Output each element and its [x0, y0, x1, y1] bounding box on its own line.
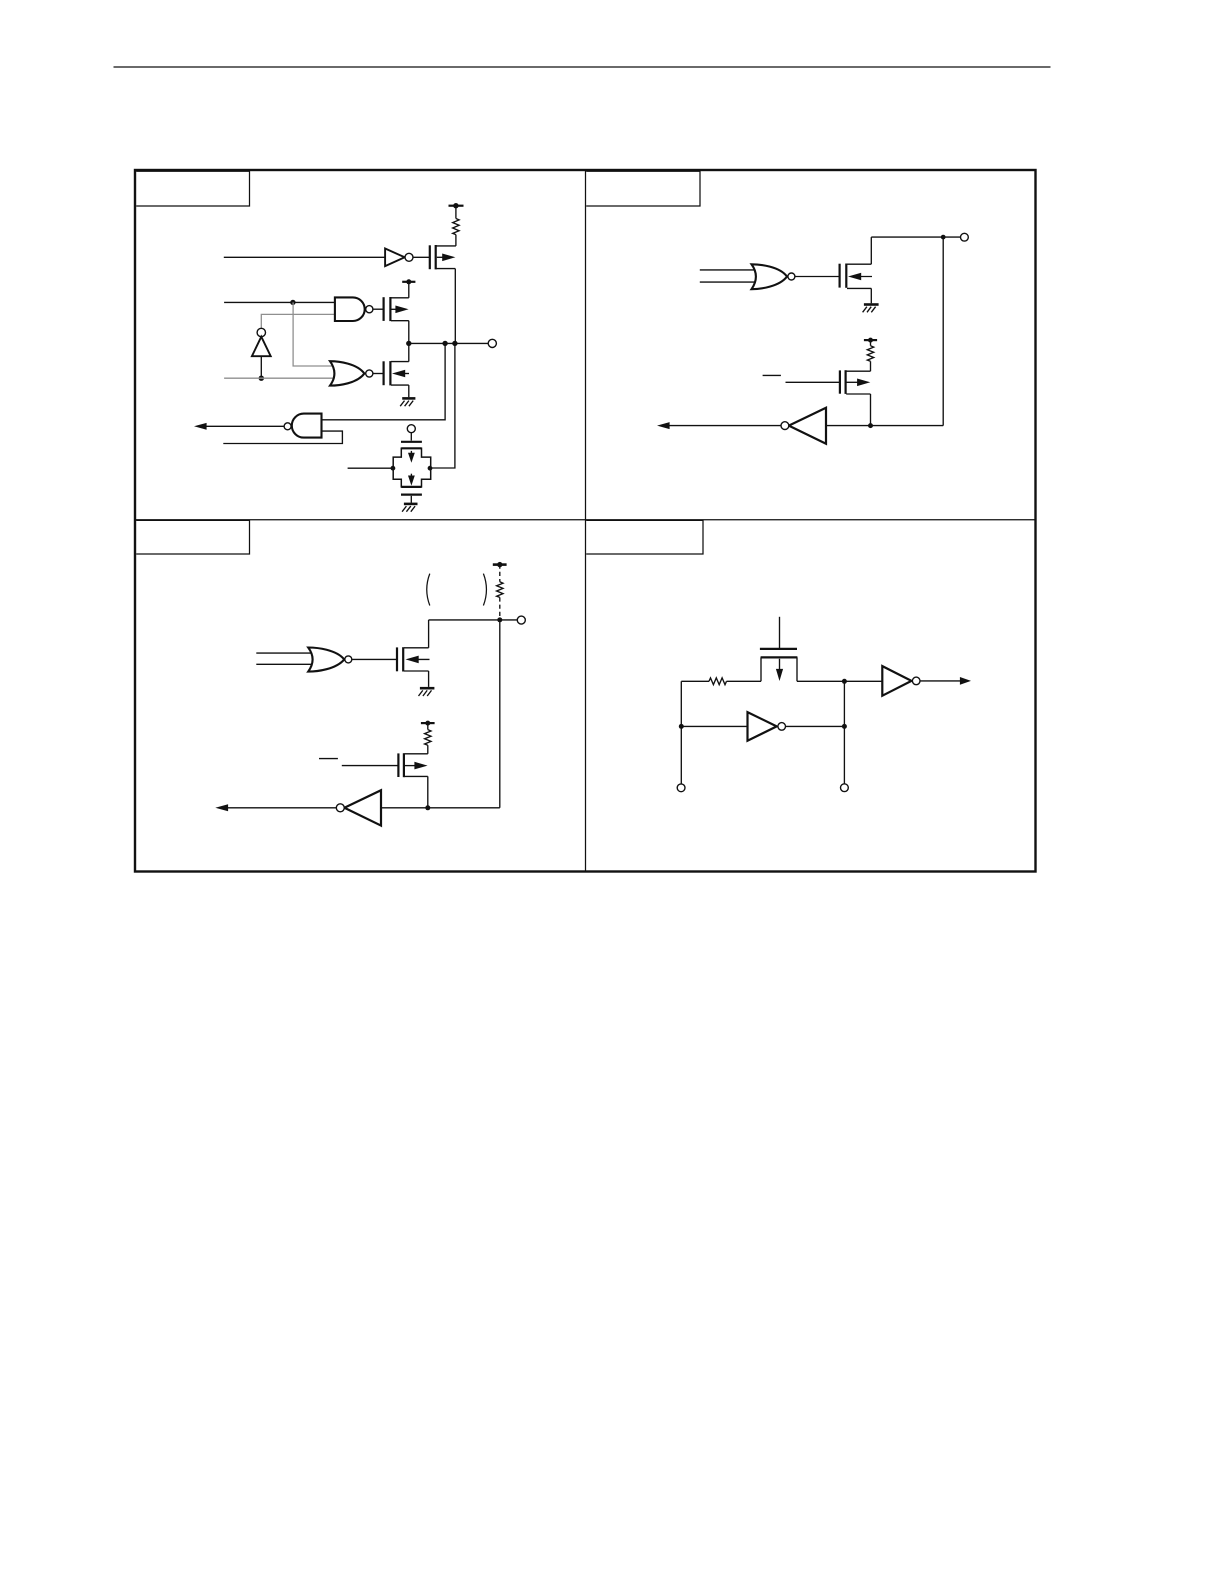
wire gate lead to Q9 [342, 765, 398, 767]
left parenthesis (mask option) [427, 574, 430, 606]
output pad circle [961, 233, 969, 241]
ground GND1 [402, 397, 415, 400]
resistor R4 [425, 730, 431, 746]
wire U2 to Q2 gate [373, 308, 383, 310]
transistor Q10 right leg [796, 657, 798, 681]
nor U6 [752, 264, 788, 289]
wire Q6 source down to ground [870, 288, 872, 303]
ground GND3 [864, 303, 879, 306]
outer table border [135, 170, 1036, 872]
dashed wire R3 to node [499, 597, 501, 620]
transistor Q10 channel bar [761, 656, 798, 658]
main wire resistor to Q10 left leg [727, 680, 762, 682]
wire node down to NAND U5 input [322, 343, 445, 419]
node wire to output pad [429, 619, 518, 621]
dash mark (signal overline) [319, 758, 338, 760]
wire input stub lower to NOR U8 [256, 663, 313, 665]
wire vertical node to bottom line [499, 620, 501, 808]
main wire Q10 right leg to inverter U11 [797, 680, 882, 682]
transistor Q3 drain lead [391, 384, 409, 386]
left terminal junction dot [391, 466, 396, 471]
transistor Q1 drain lead [437, 268, 456, 270]
horizontal divider [135, 519, 1036, 521]
inverter U11 [882, 666, 911, 696]
resistor R3 [497, 582, 503, 598]
cell label box top-left [136, 171, 249, 206]
wire Q1 drain down to output node [454, 269, 456, 344]
bubble of U5 [284, 423, 291, 430]
mid wire U10 to right vertical [786, 725, 845, 727]
wire right vertical [843, 681, 845, 784]
bubble of U2 [366, 306, 373, 313]
transistor Q10 gate bar [760, 648, 797, 650]
wire U11 output arrow to internal [920, 680, 961, 682]
vdd symbol VDD5 [421, 722, 435, 724]
transfer gate upper arrow [410, 451, 412, 457]
bubble of U9 [336, 804, 344, 812]
transistor Q6 drain lead [847, 263, 871, 265]
wire U9 output arrow to internal [228, 807, 337, 809]
wire bottom line U9 to vertical [381, 807, 500, 809]
bubble of U7 [781, 422, 789, 430]
node junction dot (to transfer gate) [452, 341, 457, 346]
wire U8 to Q8 gate [352, 658, 396, 660]
junction dot right mid [842, 724, 847, 729]
wire input stub upper to NOR U6 [700, 269, 757, 271]
nand U2 [335, 297, 365, 321]
node junction dot at Q2/Q3 [406, 341, 411, 346]
transistor Q8 channel bar [402, 647, 404, 671]
node junction dot [941, 235, 946, 240]
node junction dot (to NAND U5) [442, 341, 447, 346]
wire Q9 source down to bottom line [427, 776, 429, 807]
cell label box bottom-right [586, 520, 703, 554]
transfer gate terminal circle [407, 425, 415, 433]
junction dot on bottom line [425, 805, 430, 810]
transistor Q2 (P-ch) gate bar [383, 297, 385, 321]
vdd symbol VDD4 [493, 563, 507, 566]
wire input line to NAND U2 [224, 301, 335, 303]
bubble of U1 [405, 253, 413, 261]
wire (gray) input line to NOR U4 lower input [224, 377, 338, 379]
junction dot on bottom line [868, 423, 873, 428]
transistor Q7 (N-ch) gate bar [839, 370, 841, 393]
transistor Q8 substrate arrow [412, 658, 430, 660]
transistor Q1 (P-ch) gate bar [429, 245, 431, 269]
inverter U3 (points up) [252, 337, 271, 357]
transistor Q2 channel bar [389, 297, 391, 321]
pin circle X2 [841, 784, 849, 792]
inverter U10 [748, 712, 777, 741]
resistor R2 [867, 346, 873, 362]
transistor Q3 source lead [391, 361, 409, 363]
wire vertical node to bottom line [942, 237, 944, 426]
transistor Q9 substrate arrow [405, 765, 416, 767]
transistor Q3 (N-ch) gate bar [383, 361, 385, 385]
transistor Q6 source lead [847, 287, 871, 289]
wire VDD3 to resistor R2 [870, 340, 872, 346]
right parenthesis (mask option) [483, 574, 486, 606]
wire input line to inverter U1 [224, 256, 385, 258]
transistor Q10 substrate arrow (down) [779, 659, 781, 672]
transistor Q1 substrate arrow [437, 256, 445, 258]
wire gate lead of feedback FET Q10 [779, 617, 781, 648]
pin circle X1 [677, 784, 685, 792]
transistor Q8 drain lead [404, 647, 429, 649]
wire U4 to Q3 gate [373, 373, 383, 375]
wire input stub lower to NOR U6 [700, 281, 757, 283]
transistor Q7 substrate arrow [846, 381, 858, 383]
transistor Q7 channel bar [844, 370, 846, 394]
bubble of U8 [345, 656, 352, 663]
cell label box top-right [586, 171, 700, 206]
transistor Q2 drain lead [391, 320, 409, 322]
wire U6 to Q6 gate [795, 276, 839, 278]
node A junction dot [290, 300, 295, 305]
output pad circle [517, 616, 525, 624]
wire node corner down to Q8 drain [428, 620, 430, 648]
transistor Q8 source lead [404, 670, 429, 672]
bubble of U6 [788, 273, 795, 280]
right terminal junction dot [428, 466, 433, 471]
node wire to output pad [871, 236, 960, 238]
dashed wire VDD4 to resistor R3 [499, 565, 501, 582]
wire gate lead to Q7 [786, 381, 840, 383]
wire (gray) node A down to NOR U4 top input [293, 302, 338, 366]
wire R1 to Q1 source [455, 235, 457, 246]
junction dot left mid [679, 724, 684, 729]
wire VDD2 to Q2 source [408, 282, 410, 298]
header rule [114, 66, 1051, 68]
wire VDD5 to resistor R4 [427, 723, 429, 730]
wire U3 input down to node B [260, 356, 262, 378]
wire Q6 drain up to node [870, 237, 872, 264]
transfer gate lower arrow [410, 474, 412, 480]
resistor R5 (horizontal) [709, 678, 727, 685]
inverter U7 (points left) [789, 408, 826, 444]
transfer gate Q4/Q5 cross body [393, 448, 431, 487]
bubble of U4 [366, 370, 373, 377]
wire circle to transfer gate top gate bar [410, 433, 412, 441]
transistor Q6 (N-ch) gate bar [838, 264, 840, 288]
wire U5 second input [223, 431, 342, 443]
transfer gate top gate bar [401, 441, 422, 443]
vdd symbol VDD3 [864, 339, 877, 341]
nand U5 (points left) [292, 414, 322, 438]
wire input stub upper to NOR U8 [256, 652, 313, 654]
wire U5 output arrow to internal [206, 425, 284, 427]
transistor Q6 substrate arrow [854, 276, 872, 278]
transistor Q9 (N-ch) gate bar [397, 753, 399, 777]
bubble of U10 [778, 723, 786, 731]
transistor Q9 drain lead [405, 753, 428, 755]
transistor Q7 drain lead [846, 370, 870, 372]
cell label box bottom-left [136, 520, 249, 554]
transfer gate bottom gate bar [401, 494, 422, 496]
wire node down to transfer gate [430, 343, 455, 468]
transistor Q3 substrate arrow [398, 373, 409, 375]
nor U4 [330, 361, 364, 385]
wire Q8 source down to ground [428, 671, 430, 687]
wire R4 to Q9 drain [427, 745, 429, 754]
transistor Q1 source lead [437, 245, 456, 247]
transistor Q6 channel bar [845, 264, 847, 288]
transistor Q1 channel bar [435, 245, 437, 269]
wire Q3 source up to node [408, 343, 410, 361]
ground GND4 [420, 687, 435, 690]
wire bottom gate to ground [410, 496, 412, 503]
transistor Q8 (N-ch) gate bar [396, 647, 398, 671]
ground GND2 [404, 503, 418, 506]
transistor Q10 left leg [760, 657, 762, 681]
wire (gray) NAND U2 lower input to inverter U3 [261, 314, 335, 328]
wire U1 bubble to Q1 gate [413, 256, 429, 258]
vdd symbol VDD1 [449, 205, 464, 207]
vertical divider [585, 170, 587, 872]
transistor Q3 channel bar [389, 361, 391, 385]
wire Q7 source down to bottom line [870, 394, 872, 426]
transistor Q9 channel bar [403, 753, 405, 777]
wire R2 to Q7 drain [870, 361, 872, 371]
wire U7 output arrow to internal [669, 425, 781, 427]
inverter U1 [385, 249, 405, 267]
wire Q3 drain down to ground [408, 385, 410, 397]
transistor Q9 source lead [405, 775, 428, 777]
node junction dot [497, 617, 502, 622]
output pad circle [488, 339, 496, 347]
node B junction dot [259, 376, 264, 381]
inverter U3 bubble [257, 328, 265, 336]
mid wire to inverter U10 [681, 725, 747, 727]
wire left terminal stub [348, 467, 394, 469]
wire VDD1 to resistor R1 [455, 206, 457, 219]
nor U8 [308, 648, 344, 672]
junction dot main wire [842, 679, 847, 684]
wire Q2 drain down to node [408, 321, 410, 344]
output node wire [409, 342, 489, 344]
vdd symbol VDD2 [402, 281, 415, 283]
wire bottom line U7 to vertical [826, 425, 943, 427]
transistor Q7 source lead [846, 393, 870, 395]
bubble of U11 [912, 677, 920, 685]
inverter U9 (points left) [344, 790, 381, 825]
transistor Q2 substrate arrow [391, 308, 398, 310]
transistor Q2 source lead [391, 297, 409, 299]
dash mark (signal overline) [763, 374, 781, 376]
main wire left segment [681, 680, 709, 682]
resistor R1 [453, 219, 459, 235]
wire left vertical [680, 681, 682, 784]
